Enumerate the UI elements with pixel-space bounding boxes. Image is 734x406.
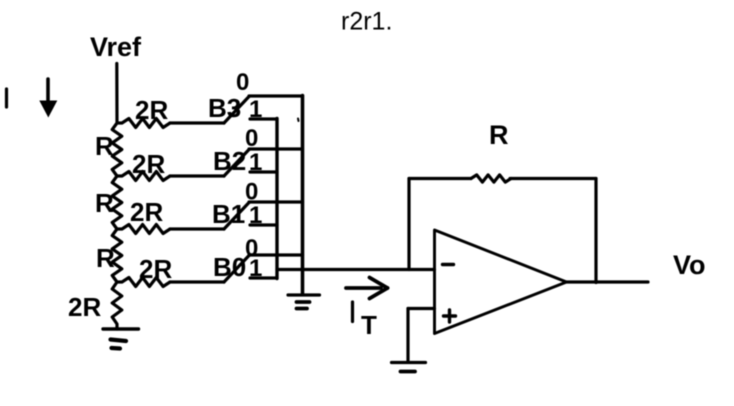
arrow I direction (down) xyxy=(46,79,50,104)
svg-text:Vo: Vo xyxy=(673,250,706,280)
current IT arrow xyxy=(346,286,381,290)
switch B2 lever xyxy=(224,150,249,177)
svg-text:R: R xyxy=(95,188,114,218)
resistor 2R (row B3) xyxy=(117,119,170,128)
op-amp U1 triangle xyxy=(435,230,567,334)
wire feedback left vertical xyxy=(407,179,410,270)
svg-text:R: R xyxy=(96,243,115,273)
wire row B3 to switch xyxy=(170,121,224,124)
label I of IT xyxy=(351,302,354,322)
wire Vref to ladder xyxy=(115,64,118,123)
wire switch B2 contact 0 to ground bus xyxy=(249,147,303,150)
svg-text:B3: B3 xyxy=(208,93,241,123)
svg-text:1: 1 xyxy=(249,202,262,229)
op-amp non-inverting input marker + xyxy=(444,314,456,317)
svg-text:R: R xyxy=(95,131,114,161)
resistor 2R (row B1) xyxy=(117,225,170,234)
wire switch B2 contact 1 to summing bus xyxy=(250,170,277,173)
wire row B0 to switch xyxy=(170,280,224,283)
svg-text:T: T xyxy=(361,310,377,340)
wire switch B3 contact 1 to summing bus xyxy=(250,117,277,120)
wire switch B0 contact 1 to summing bus xyxy=(250,276,277,279)
svg-text:2R: 2R xyxy=(68,292,101,322)
svg-text:1: 1 xyxy=(249,149,262,176)
wire feedback top left xyxy=(409,177,471,180)
svg-text:Vref: Vref xyxy=(90,32,142,62)
switch B1 lever xyxy=(224,203,249,230)
resistor 2R (row B0) xyxy=(117,278,170,287)
svg-text:2R: 2R xyxy=(139,254,172,284)
bus of 1-contacts (to summing node) xyxy=(275,119,278,279)
wire feedback right vertical to output xyxy=(594,179,597,283)
wire non-inverting input xyxy=(408,307,435,310)
ground (ladder terminator) xyxy=(103,327,139,330)
resistor R (ladder, between B1 and B0 taps) xyxy=(112,229,122,282)
resistor R (feedback) xyxy=(471,175,511,182)
resistor 2R (ladder terminator) xyxy=(112,282,122,329)
op-amp inverting input marker - xyxy=(443,263,454,266)
wire switch B3 contact 0 to ground bus xyxy=(249,94,303,97)
wire summing node to op-amp inverting input xyxy=(277,268,435,271)
ground (0-contact bus) xyxy=(288,293,320,296)
svg-text:1: 1 xyxy=(249,96,262,123)
wire switch B0 contact 0 to ground bus xyxy=(249,253,303,256)
wire row B2 to switch xyxy=(170,174,224,177)
svg-text:2R: 2R xyxy=(135,95,168,125)
resistor R (ladder, between B3 and B2 taps) xyxy=(112,123,122,176)
svg-text:0: 0 xyxy=(236,69,249,96)
label I (ladder current) xyxy=(5,89,8,107)
wire switch B1 contact 0 to ground bus xyxy=(249,200,303,203)
wire row B1 to switch xyxy=(170,227,224,230)
svg-text:R: R xyxy=(489,120,509,150)
ground (op-amp non-inverting input) xyxy=(392,361,426,364)
svg-text:B1: B1 xyxy=(212,199,245,229)
stray tick xyxy=(297,119,300,122)
wire op-amp output xyxy=(567,280,649,283)
svg-text:2R: 2R xyxy=(132,149,165,179)
wire feedback top right xyxy=(510,177,596,180)
switch B3 lever xyxy=(224,97,249,124)
resistor 2R (row B2) xyxy=(117,172,170,181)
svg-text:B2: B2 xyxy=(213,146,246,176)
svg-text:2R: 2R xyxy=(130,197,163,227)
svg-text:B0: B0 xyxy=(213,252,246,282)
svg-text:r2r1.: r2r1. xyxy=(341,8,392,36)
wire switch B1 contact 1 to summing bus xyxy=(250,223,277,226)
svg-text:1: 1 xyxy=(249,255,262,282)
resistor R (ladder, between B2 and B1 taps) xyxy=(112,176,122,229)
bus of 0-contacts (to ground) xyxy=(301,96,305,295)
svg-text:0: 0 xyxy=(245,125,258,152)
switch B0 lever xyxy=(224,256,249,283)
